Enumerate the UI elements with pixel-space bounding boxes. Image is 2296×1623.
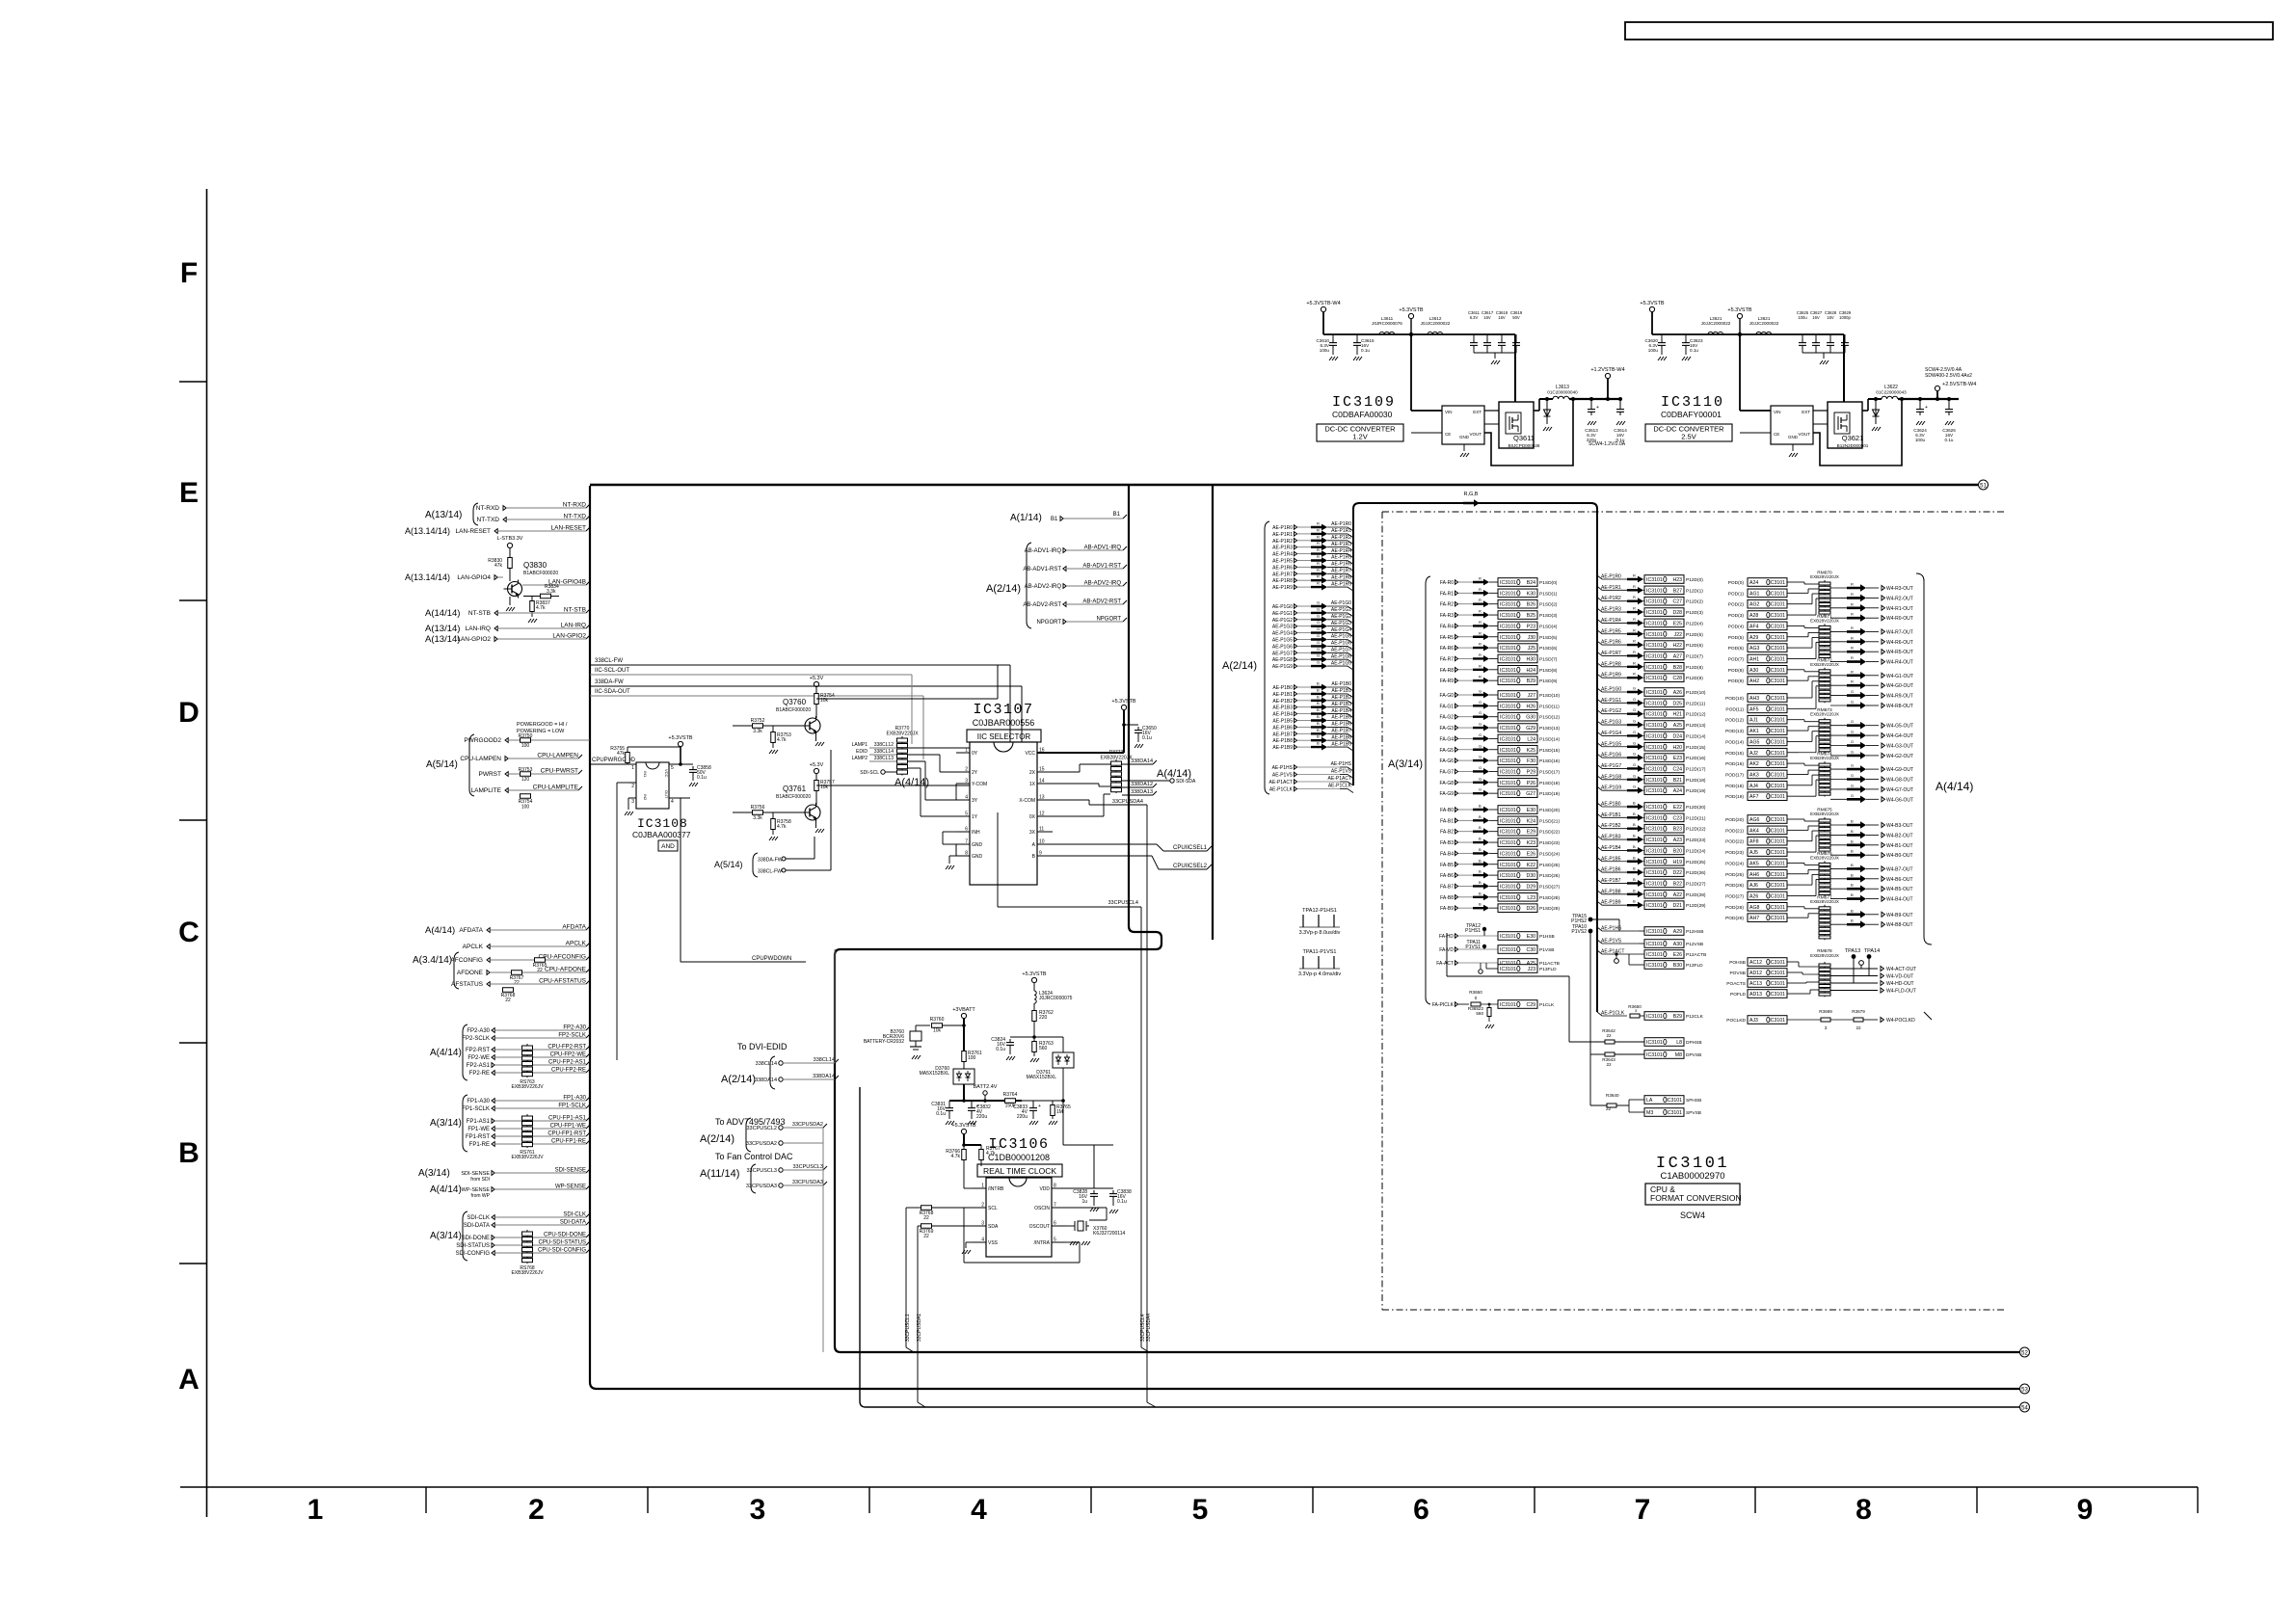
svg-text:W4-R9-OUT: W4-R9-OUT — [1886, 694, 1913, 700]
svg-text:W4-B0-OUT: W4-B0-OUT — [1886, 853, 1913, 859]
output signal W4-B9-OUT — [1830, 914, 1847, 916]
svg-text:OSCIN: OSCIN — [1034, 1206, 1050, 1211]
svg-text:AE-P1B6: AE-P1B6 — [1601, 867, 1621, 873]
power +5.3VSTB RTC — [961, 1129, 966, 1133]
svg-text:AK5: AK5 — [1749, 861, 1759, 866]
svg-text:P12D(25): P12D(25) — [1686, 860, 1706, 865]
transistor Q3621 — [1828, 402, 1862, 448]
svg-text:P1SD(19): P1SD(19) — [1539, 791, 1560, 797]
svg-text:P12D(23): P12D(23) — [1686, 838, 1706, 843]
column tick marks — [425, 1487, 427, 1513]
svg-text:IC3107: IC3107 — [973, 702, 1033, 718]
svg-text:33CPUSCL3: 33CPUSCL3 — [793, 1164, 824, 1170]
svg-text:11: 11 — [1039, 827, 1044, 833]
svg-text:FA-B6: FA-B6 — [1440, 873, 1454, 879]
svg-text:VCC: VCC — [1025, 751, 1035, 757]
svg-text:B29: B29 — [1527, 678, 1535, 684]
svg-text:AE-P1B2: AE-P1B2 — [1272, 699, 1293, 705]
svg-text:LAN-IRQ: LAN-IRQ — [561, 623, 586, 629]
svg-text:AE-P1G0: AE-P1G0 — [1272, 604, 1293, 610]
svg-text:P1SD(25): P1SD(25) — [1539, 863, 1560, 868]
svg-text:TPA11-P1VS1: TPA11-P1VS1 — [1303, 949, 1337, 955]
svg-text:MA5X152BXL: MA5X152BXL — [920, 1071, 950, 1077]
svg-text:B22: B22 — [1673, 881, 1682, 887]
svg-text:A(3/14): A(3/14) — [418, 1168, 450, 1179]
svg-text:IC3109: IC3109 — [1332, 394, 1396, 411]
svg-text:D29: D29 — [1526, 884, 1535, 890]
svg-text:G27: G27 — [1526, 791, 1535, 797]
wire P1HS loop to DPHSB — [1446, 933, 1448, 976]
svg-text:IC3101: IC3101 — [1769, 772, 1785, 778]
svg-text:IC3101: IC3101 — [1646, 701, 1663, 706]
svg-text:R: R — [1633, 595, 1636, 599]
svg-text:PWRST: PWRST — [479, 771, 502, 778]
svg-text:APCLK: APCLK — [463, 944, 484, 950]
svg-text:AE-P1G9: AE-P1G9 — [1331, 660, 1351, 666]
svg-text:33CPUSDA3: 33CPUSDA3 — [746, 1184, 777, 1189]
svg-text:+5.3VSTB: +5.3VSTB — [1111, 699, 1136, 705]
wire output rail — [1898, 398, 1949, 400]
wire CPUPWDOWN from IC3108 — [680, 798, 681, 962]
svg-text:IC3101: IC3101 — [1769, 872, 1785, 878]
IC3106 pin 1 /INTRB — [973, 1187, 986, 1189]
svg-text:IC3101: IC3101 — [1500, 656, 1516, 662]
resistor row AE-P1R0 to P12D(0) — [1597, 575, 1631, 579]
output signal W4-G5-OUT — [1830, 725, 1847, 727]
svg-text:FA-R4: FA-R4 — [1440, 624, 1454, 629]
svg-text:AG2: AG2 — [1749, 602, 1759, 608]
svg-text:IC3101: IC3101 — [1769, 591, 1785, 597]
svg-text:AE-P1HS: AE-P1HS — [1331, 761, 1352, 767]
svg-text:B: B — [178, 1137, 200, 1169]
svg-text:E: E — [179, 477, 199, 509]
svg-text:P1SD(21): P1SD(21) — [1539, 818, 1560, 824]
svg-text:R,G,B: R,G,B — [1464, 492, 1479, 497]
svg-text:G: G — [1633, 752, 1636, 757]
svg-text:IC3101: IC3101 — [1500, 613, 1516, 619]
svg-text:1.2V: 1.2V — [1352, 433, 1367, 441]
svg-text:POD(9): POD(9) — [1728, 678, 1745, 684]
svg-text:IC3101: IC3101 — [1646, 827, 1663, 833]
svg-text:2: 2 — [981, 1203, 984, 1209]
svg-text:560: 560 — [1476, 1011, 1483, 1016]
svg-text:FA-R5: FA-R5 — [1440, 635, 1454, 641]
svg-text:AE-P1G3: AE-P1G3 — [1272, 625, 1293, 630]
svg-text:0.1u: 0.1u — [1142, 735, 1152, 741]
svg-text:B12N2D000001: B12N2D000001 — [1837, 443, 1869, 448]
svg-text:+: + — [1925, 405, 1928, 411]
svg-text:R: R — [1317, 527, 1320, 532]
svg-text:6: 6 — [965, 827, 968, 833]
svg-text:5: 5 — [671, 765, 674, 771]
svg-text:G: G — [1851, 730, 1854, 734]
svg-text:AG6: AG6 — [1749, 817, 1759, 823]
svg-text:AE-P1R2: AE-P1R2 — [1601, 596, 1621, 601]
svg-text:22: 22 — [1606, 1033, 1612, 1038]
svg-text:NT-RXD: NT-RXD — [563, 502, 587, 509]
svg-text:FP1-WE: FP1-WE — [467, 1127, 490, 1132]
svg-text:B30: B30 — [1673, 963, 1682, 969]
output signal W4-R1-OUT — [1830, 607, 1847, 609]
svg-text:E29: E29 — [1527, 830, 1535, 836]
svg-text:P1SD(13): P1SD(13) — [1539, 726, 1560, 732]
svg-text:AE-P1R5: AE-P1R5 — [1331, 555, 1351, 561]
svg-text:POD(3): POD(3) — [1728, 613, 1745, 619]
svg-text:A(13.14/14): A(13.14/14) — [405, 526, 450, 536]
resistor row AE-P1R6 to P12D(6) — [1597, 641, 1631, 645]
svg-text:IC3101: IC3101 — [1500, 715, 1516, 721]
svg-text:338CL13: 338CL13 — [874, 756, 894, 761]
svg-text:AE-P1R8: AE-P1R8 — [1331, 574, 1351, 580]
svg-text:AE-P1B8: AE-P1B8 — [1601, 889, 1621, 894]
svg-text:33CPUSDA2: 33CPUSDA2 — [746, 1141, 777, 1147]
svg-text:R3689: R3689 — [1819, 1009, 1832, 1014]
power terminal +5.3VSTB — [1649, 306, 1654, 311]
svg-text:B1: B1 — [1113, 512, 1121, 518]
svg-text:J0JJC2000022: J0JJC2000022 — [1749, 321, 1779, 326]
IC3107 pin 11 3X — [1037, 831, 1053, 833]
svg-text:POD(1): POD(1) — [1728, 591, 1745, 597]
svg-text:P1SD(28): P1SD(28) — [1539, 895, 1560, 901]
svg-text:P1SD(16): P1SD(16) — [1539, 758, 1560, 764]
svg-text:50V: 50V — [1512, 315, 1520, 320]
svg-text:P1SD(5): P1SD(5) — [1539, 635, 1558, 641]
svg-text:POWERGOOD = HI /: POWERGOOD = HI / — [517, 722, 568, 728]
svg-text:IC3101: IC3101 — [1500, 934, 1516, 940]
VDD wire + caps C3828 C3838 — [1065, 1187, 1094, 1189]
svg-text:B: B — [1317, 728, 1320, 732]
svg-text:IC3101: IC3101 — [1500, 840, 1516, 846]
resistor row AE-P1B8 to P12D(28) — [1597, 891, 1631, 894]
svg-text:P29: P29 — [1527, 769, 1535, 775]
svg-text:W4-B9-OUT: W4-B9-OUT — [1886, 913, 1913, 918]
svg-text:FP2-WE: FP2-WE — [467, 1055, 490, 1061]
svg-text:J23: J23 — [1528, 967, 1535, 972]
svg-text:P1SD(22): P1SD(22) — [1539, 830, 1560, 836]
svg-text:AE-P1R3: AE-P1R3 — [1601, 607, 1621, 613]
svg-text:P1CLK: P1CLK — [1539, 1002, 1555, 1008]
svg-text:R3753: R3753 — [519, 767, 533, 773]
svg-text:R: R — [1479, 609, 1482, 614]
wire EXT to gate — [1813, 410, 1828, 412]
svg-text:B: B — [1479, 837, 1482, 841]
svg-text:G: G — [1633, 740, 1636, 745]
svg-text:R3760: R3760 — [930, 1017, 945, 1023]
svg-text:J27: J27 — [1528, 693, 1535, 699]
svg-text:CPUIICSEL1: CPUIICSEL1 — [1173, 845, 1208, 851]
svg-text:IC3101: IC3101 — [1769, 718, 1785, 724]
svg-text:G: G — [1851, 783, 1854, 787]
svg-text:FA-B2: FA-B2 — [1440, 830, 1454, 836]
capacitor input 1 — [1332, 334, 1334, 339]
svg-text:SDI-CONFIG: SDI-CONFIG — [456, 1251, 491, 1257]
svg-text:AFSTATUS: AFSTATUS — [451, 981, 484, 988]
svg-text:FA-ACT: FA-ACT — [1436, 961, 1454, 967]
svg-text:AE-P1R4: AE-P1R4 — [1272, 552, 1293, 558]
svg-text:NT-TXD: NT-TXD — [564, 514, 587, 520]
svg-text:IC3101: IC3101 — [1646, 733, 1663, 739]
svg-text:47k: 47k — [494, 563, 503, 569]
svg-text:FA-B7: FA-B7 — [1440, 884, 1454, 890]
svg-text:P12D(26): P12D(26) — [1686, 870, 1706, 876]
svg-text:100u: 100u — [1915, 438, 1926, 442]
svg-text:A(2/14): A(2/14) — [700, 1133, 734, 1145]
svg-text:AH6: AH6 — [1749, 872, 1759, 878]
svg-text:338CL14: 338CL14 — [756, 1061, 777, 1067]
svg-text:B: B — [1317, 707, 1320, 712]
svg-text:FP1-A30: FP1-A30 — [467, 1099, 490, 1104]
svg-text:P12D(10): P12D(10) — [1686, 690, 1706, 696]
svg-text:POVSB: POVSB — [1729, 971, 1746, 976]
svg-text:120: 120 — [521, 777, 530, 783]
svg-text:AE-P1R7: AE-P1R7 — [1601, 651, 1621, 656]
svg-text:IC3101: IC3101 — [1646, 643, 1663, 649]
svg-text:AE-P1VS: AE-P1VS — [1331, 769, 1352, 775]
svg-text:3: 3 — [965, 779, 968, 785]
svg-text:AE-P1B8: AE-P1B8 — [1331, 734, 1351, 740]
IC3107 gnd pins — [955, 844, 957, 856]
svg-text:FA-R1: FA-R1 — [1440, 591, 1454, 597]
svg-text:SCW4-1.2V/2.0A: SCW4-1.2V/2.0A — [1589, 441, 1626, 447]
svg-text:R: R — [1851, 592, 1854, 597]
svg-text:B: B — [1317, 721, 1320, 726]
svg-text:H30: H30 — [1526, 656, 1535, 662]
IC3106 pin 2 SCL — [973, 1207, 986, 1209]
svg-text:B: B — [1851, 849, 1854, 854]
svg-text:B: B — [1317, 687, 1320, 692]
svg-text:CPU-FP2-AS1: CPU-FP2-AS1 — [548, 1060, 587, 1066]
output signal W4-VD-OUT — [1830, 975, 1878, 977]
svg-text:R: R — [1633, 573, 1636, 578]
svg-text:EXB28V220JX: EXB28V220JX — [1810, 662, 1839, 667]
svg-text:W4-R7-OUT: W4-R7-OUT — [1886, 629, 1913, 635]
svg-text:W4-R4-OUT: W4-R4-OUT — [1886, 660, 1913, 666]
svg-text:W4-R6-OUT: W4-R6-OUT — [1886, 640, 1913, 646]
svg-text:0.1u: 0.1u — [1361, 348, 1370, 353]
svg-text:IC3101: IC3101 — [1646, 778, 1663, 784]
svg-text:R: R — [1317, 541, 1320, 545]
svg-text:AE-P1R5: AE-P1R5 — [1601, 628, 1621, 634]
svg-text:B: B — [1633, 877, 1636, 882]
svg-text:AE-P1B5: AE-P1B5 — [1331, 715, 1351, 721]
svg-text:AE-P1HS: AE-P1HS — [1272, 765, 1294, 771]
svg-text:R3764: R3764 — [1003, 1092, 1018, 1098]
svg-text:AE-P1R8: AE-P1R8 — [1272, 578, 1293, 584]
svg-text:IC3101: IC3101 — [1500, 591, 1516, 597]
resistor row AE-P1B5 to P12D(25) — [1597, 858, 1631, 862]
svg-text:AE-P1R2: AE-P1R2 — [1331, 535, 1351, 541]
svg-text:EXB38V226JV: EXB38V226JV — [511, 1155, 544, 1160]
svg-text:W4-R3-OUT: W4-R3-OUT — [1886, 586, 1913, 592]
svg-text:B: B — [1317, 701, 1320, 705]
svg-text:A29: A29 — [1673, 929, 1682, 935]
svg-text:4.7k: 4.7k — [536, 605, 546, 611]
svg-text:B24: B24 — [1527, 580, 1535, 586]
output signal W4-G6-OUT — [1830, 798, 1847, 800]
net BATT2.4V — [962, 1099, 966, 1103]
svg-text:P1SD(7): P1SD(7) — [1539, 656, 1558, 662]
svg-text:G: G — [1633, 762, 1636, 767]
svg-text:AE-P1G2: AE-P1G2 — [1272, 618, 1293, 624]
svg-text:0.1u: 0.1u — [1945, 438, 1954, 442]
svg-text:1: 1 — [307, 1494, 324, 1526]
svg-text:IC3101: IC3101 — [1646, 892, 1663, 898]
svg-text:+5.3VSTB: +5.3VSTB — [1640, 301, 1665, 306]
IC3107 pin 16 VCC — [1037, 752, 1053, 754]
svg-text:J0JRC0000075: J0JRC0000075 — [1039, 996, 1073, 1001]
svg-text:J22: J22 — [1674, 632, 1682, 638]
svg-text:B: B — [1479, 804, 1482, 809]
svg-text:POD(29): POD(29) — [1725, 916, 1744, 921]
svg-text:CPU-FP1-RE: CPU-FP1-RE — [551, 1139, 586, 1145]
svg-text:R: R — [1479, 675, 1482, 679]
svg-text:4.7k: 4.7k — [986, 1151, 996, 1157]
svg-text:P1SD(3): P1SD(3) — [1539, 613, 1558, 619]
svg-text:AE-P1R6: AE-P1R6 — [1331, 562, 1351, 568]
svg-text:G: G — [1851, 793, 1854, 798]
svg-text:G: G — [1851, 773, 1854, 778]
svg-text:G: G — [1479, 710, 1482, 715]
svg-text:R: R — [1317, 561, 1320, 566]
svg-text:P1SD(26): P1SD(26) — [1539, 873, 1560, 879]
svg-text:LAN-RESET: LAN-RESET — [456, 528, 492, 535]
svg-text:AE-P1G4: AE-P1G4 — [1601, 731, 1621, 736]
svg-text:P1SD(2): P1SD(2) — [1539, 602, 1558, 608]
svg-text:G: G — [1479, 700, 1482, 705]
resistor R3754 100 — [521, 794, 531, 799]
svg-text:22: 22 — [1606, 1062, 1612, 1067]
svg-text:AE-P1B4: AE-P1B4 — [1272, 712, 1293, 718]
svg-text:P1SD(20): P1SD(20) — [1539, 808, 1560, 813]
svg-text:L-STB3.3V: L-STB3.3V — [497, 536, 523, 542]
wire 33CPUSDA4 vertical — [1146, 805, 1148, 1402]
svg-text:AJ6: AJ6 — [1749, 883, 1758, 889]
svg-text:IIC-SCL-OUT: IIC-SCL-OUT — [595, 668, 629, 674]
svg-text:4.7k: 4.7k — [777, 824, 787, 830]
svg-text:EDID: EDID — [856, 749, 868, 755]
svg-text:IC3101: IC3101 — [1769, 981, 1785, 987]
resistor array RS763 — [526, 1044, 528, 1078]
svg-text:AE-P1B5: AE-P1B5 — [1272, 719, 1293, 725]
svg-text:IC3101: IC3101 — [1500, 851, 1516, 857]
dashed region box for IC3101 — [1382, 511, 2004, 513]
resistor row AE-P1B3 to P12D(23) — [1597, 836, 1631, 839]
svg-text:IC3101: IC3101 — [1500, 693, 1516, 699]
svg-text:SDI-CLK: SDI-CLK — [563, 1212, 586, 1218]
svg-text:POD(12): POD(12) — [1725, 718, 1744, 724]
svg-text:AH7: AH7 — [1749, 916, 1759, 921]
svg-text:P1VSB: P1VSB — [1539, 947, 1554, 953]
row P13FLD — [1498, 965, 1537, 973]
svg-text:AE-P1B3: AE-P1B3 — [1601, 835, 1621, 840]
vertical wires from DVI terminals — [822, 1128, 824, 1352]
svg-text:AE-P1R3: AE-P1R3 — [1331, 542, 1351, 547]
svg-text:AE-P1G2: AE-P1G2 — [1331, 614, 1351, 620]
svg-text:G: G — [1317, 653, 1320, 658]
svg-text:X-COM: X-COM — [1019, 798, 1035, 804]
svg-text:Q3621: Q3621 — [1842, 434, 1864, 442]
svg-text:GND: GND — [1788, 435, 1799, 439]
svg-text:3: 3 — [1825, 1025, 1828, 1030]
svg-text:AJ1: AJ1 — [1749, 718, 1758, 724]
svg-text:AE-P1CLK: AE-P1CLK — [1601, 1011, 1625, 1017]
output signal W4-R2-OUT — [1830, 597, 1847, 599]
svg-text:P1SD(9): P1SD(9) — [1539, 678, 1558, 684]
svg-text:FA-G3: FA-G3 — [1440, 726, 1455, 732]
svg-text:/INTRB: /INTRB — [988, 1186, 1004, 1192]
svg-text:W4-B2-OUT: W4-B2-OUT — [1886, 833, 1913, 838]
svg-text:REAL TIME CLOCK: REAL TIME CLOCK — [983, 1166, 1056, 1176]
svg-text:C1DB00001208: C1DB00001208 — [988, 1153, 1050, 1162]
svg-text:EXB28V220JX: EXB28V220JX — [1810, 855, 1839, 860]
resistor row AE-P1G2 to P12D(12) — [1597, 710, 1631, 714]
svg-text:VIN: VIN — [1445, 410, 1453, 414]
svg-text:AK1: AK1 — [1749, 729, 1759, 734]
svg-text:E23: E23 — [1673, 756, 1682, 761]
power terminal +3VBATT — [961, 1013, 966, 1018]
output signal W4-ACT-OUT — [1830, 968, 1878, 970]
svg-text:338DA14: 338DA14 — [1131, 758, 1153, 764]
svg-text:B: B — [1851, 872, 1854, 877]
svg-text:W4-HD-OUT: W4-HD-OUT — [1886, 981, 1914, 987]
svg-text:R: R — [1633, 672, 1636, 677]
svg-text:3.3k: 3.3k — [753, 815, 762, 821]
svg-text:2: 2 — [528, 1494, 545, 1526]
svg-text:IC3101: IC3101 — [1500, 758, 1516, 764]
svg-text:C28: C28 — [1672, 676, 1682, 681]
svg-text:G: G — [1851, 749, 1854, 754]
svg-text:FA-G4: FA-G4 — [1440, 736, 1455, 742]
svg-text:FP1-RE: FP1-RE — [469, 1142, 490, 1148]
feedback loop wire — [1813, 399, 1902, 466]
svg-text:IC3101: IC3101 — [1500, 906, 1516, 912]
svg-text:MA5X152BXL: MA5X152BXL — [1027, 1075, 1057, 1080]
svg-text:9: 9 — [2077, 1494, 2094, 1526]
svg-text:6: 6 — [1054, 1221, 1056, 1227]
resistor R3837 4.7k — [530, 601, 535, 612]
svg-text:J0JJC2000022: J0JJC2000022 — [1701, 321, 1731, 326]
svg-text:DPVSB: DPVSB — [1686, 1052, 1701, 1058]
svg-text:12: 12 — [1039, 811, 1045, 817]
svg-text:AJ3: AJ3 — [1749, 1018, 1758, 1024]
svg-text:R: R — [1633, 660, 1636, 665]
svg-text:A26: A26 — [1749, 893, 1758, 899]
svg-text:LAN-IRQ: LAN-IRQ — [466, 625, 491, 632]
svg-text:POD(21): POD(21) — [1725, 828, 1744, 834]
svg-text:G: G — [1479, 732, 1482, 737]
svg-text:AE-P1B3: AE-P1B3 — [1331, 702, 1351, 707]
svg-text:B: B — [1479, 869, 1482, 874]
svg-text:A25: A25 — [1673, 723, 1682, 729]
svg-text:AB-ADV2-IRQ: AB-ADV2-IRQ — [1084, 581, 1122, 587]
svg-text:AG5: AG5 — [1749, 739, 1759, 745]
svg-text:POD(16): POD(16) — [1725, 761, 1744, 767]
svg-text:0: 0 — [1475, 996, 1478, 1000]
svg-text:IC3101: IC3101 — [1769, 751, 1785, 757]
svg-text:FA-G8: FA-G8 — [1440, 781, 1455, 786]
resistor array RS768 — [526, 1230, 528, 1264]
svg-text:0.1u: 0.1u — [1690, 348, 1698, 353]
svg-text:VCC: VCC — [664, 769, 669, 778]
svg-text:AG1: AG1 — [1749, 591, 1759, 597]
svg-text:B: B — [1851, 838, 1854, 843]
svg-text:B: B — [1851, 918, 1854, 923]
svg-text:15: 15 — [1039, 767, 1045, 773]
svg-text:FP1-A30: FP1-A30 — [563, 1096, 586, 1102]
svg-text:220u: 220u — [976, 1114, 987, 1120]
svg-text:P12D(22): P12D(22) — [1686, 827, 1706, 833]
wire input down to regulator — [1410, 334, 1412, 411]
